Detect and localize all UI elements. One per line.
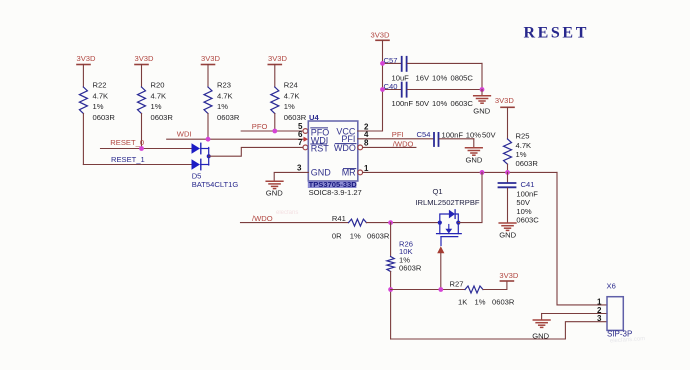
svg-text:3V3D: 3V3D (499, 271, 519, 280)
capacitor C40 (383, 82, 483, 108)
node gate junction (438, 287, 443, 292)
resistor R41 (332, 214, 390, 240)
U4 pin names right (334, 126, 356, 177)
wire R25 down (507, 164, 509, 172)
ground G4 (499, 223, 516, 239)
net label PFO + wire (241, 122, 303, 131)
wire gate down (440, 253, 442, 289)
svg-text:4.7K: 4.7K (217, 91, 233, 100)
node RESET_0 junction (139, 146, 144, 151)
svg-text:0603R: 0603R (399, 263, 422, 272)
resistor R27 (450, 280, 515, 307)
svg-text:C41: C41 (521, 180, 535, 189)
node cathode junction (207, 154, 211, 158)
wire caps right leg (481, 63, 483, 89)
svg-text:3V3D: 3V3D (77, 54, 97, 63)
svg-text:3: 3 (597, 314, 602, 323)
U4 highlighted value TPS3705-33D (308, 180, 357, 189)
wire pin8 stub + net label /WDO (363, 139, 416, 148)
svg-text:1%: 1% (284, 102, 295, 111)
svg-text:0603R: 0603R (151, 113, 174, 122)
svg-text:0603R: 0603R (93, 113, 116, 122)
svg-text:1: 1 (364, 164, 369, 173)
svg-text:0603R: 0603R (284, 113, 307, 122)
resistor R26 (387, 223, 422, 273)
diode D5b (192, 159, 209, 169)
svg-text:50V: 50V (516, 198, 530, 207)
svg-text:PFI: PFI (392, 130, 404, 139)
svg-text:GND: GND (473, 107, 490, 116)
wire R22 to RESET_1 (82, 114, 84, 165)
svg-text:RESET_0: RESET_0 (110, 138, 144, 147)
resistor R25 (504, 131, 539, 168)
svg-text:3V3D: 3V3D (268, 54, 288, 63)
svg-text:1%: 1% (93, 102, 104, 111)
label D5 (192, 172, 239, 189)
svg-text:R23: R23 (217, 81, 231, 90)
svg-text:C54: C54 (417, 130, 431, 139)
svg-text:/WDO: /WDO (393, 139, 414, 148)
power 3V3D P5 (371, 30, 391, 40)
wire RST route (209, 147, 303, 156)
ground G3 (466, 139, 483, 165)
svg-text:elecfans: elecfans (276, 210, 298, 216)
svg-text:1%: 1% (217, 102, 228, 111)
svg-text:1%: 1% (516, 150, 527, 159)
svg-text:BAT54CLT1G: BAT54CLT1G (192, 180, 239, 189)
wire cathode join (208, 148, 210, 166)
wire Q1 drain to MR rail (458, 172, 482, 222)
svg-text:R41: R41 (332, 214, 346, 223)
diode D5a (192, 143, 209, 153)
svg-text:R25: R25 (516, 131, 530, 140)
transistor Q1 (415, 187, 480, 246)
power 3V3D P3 (201, 54, 221, 87)
svg-text:1%: 1% (350, 231, 361, 240)
svg-text:4.7K: 4.7K (516, 141, 532, 150)
U4 pin names left (311, 127, 332, 177)
resistor R20 (138, 81, 174, 122)
pin7 bubble (303, 145, 308, 150)
svg-text:R20: R20 (151, 81, 165, 90)
op-amp U4 box (308, 113, 358, 181)
power 3V3D P2 (135, 54, 155, 87)
svg-text:U4: U4 (309, 113, 319, 122)
wire gate row (391, 289, 465, 291)
ground G2 (473, 90, 490, 116)
svg-text:16V: 16V (416, 73, 430, 82)
wire R41 to Q1 (366, 222, 439, 224)
svg-text:4.7K: 4.7K (93, 91, 109, 100)
svg-text:R24: R24 (284, 81, 298, 90)
svg-text:0603R: 0603R (492, 297, 515, 306)
resistor R23 (204, 81, 240, 122)
svg-text:3: 3 (297, 164, 302, 173)
svg-text:100nF: 100nF (392, 99, 414, 108)
svg-text:RESET: RESET (524, 25, 589, 42)
node R41/R26 junction (388, 220, 393, 225)
svg-text:RESET_1: RESET_1 (111, 155, 145, 164)
net label /WDO bottom + wire (241, 214, 349, 223)
power 3V3D P1 (77, 54, 97, 87)
svg-text:3V3D: 3V3D (201, 54, 221, 63)
svg-text:IRLML2502TRPBF: IRLML2502TRPBF (415, 198, 480, 207)
svg-text:0R: 0R (332, 231, 342, 240)
wire R27 to power (483, 281, 507, 290)
wire R20 to RESET_0 (141, 114, 143, 149)
svg-text:X6: X6 (607, 282, 616, 291)
svg-text:3V3D: 3V3D (135, 54, 155, 63)
svg-text:PFO: PFO (252, 122, 268, 131)
svg-text:0603C: 0603C (451, 99, 474, 108)
node MR junction R25 (505, 170, 510, 175)
power 3V3D P6 (495, 96, 515, 139)
svg-text:0603R: 0603R (516, 159, 539, 168)
svg-text:100nF: 100nF (442, 131, 464, 140)
svg-text:WDI: WDI (177, 130, 192, 139)
resistor R24 (271, 81, 307, 122)
ground G5 (532, 314, 550, 341)
wire X6 pin2 (542, 313, 607, 315)
svg-text:3V3D: 3V3D (371, 30, 391, 39)
node C40 junction (380, 87, 385, 92)
node C57 junction (380, 61, 385, 66)
svg-text:4.7K: 4.7K (284, 91, 300, 100)
U4 pin numbers (297, 122, 369, 173)
svg-text:0603R: 0603R (217, 113, 240, 122)
ground G1 (266, 181, 283, 197)
wire MR rail (363, 171, 557, 173)
node MR junction Q1 (480, 170, 485, 175)
capacitor C41 (499, 172, 540, 224)
pin8 bubble (358, 145, 363, 150)
resistor R22 (79, 81, 115, 122)
connector X6 (597, 282, 632, 339)
svg-text:3V3D: 3V3D (495, 96, 515, 105)
svg-text:7: 7 (298, 138, 303, 147)
svg-text:10%: 10% (432, 99, 447, 108)
svg-text:GND: GND (311, 168, 332, 178)
svg-text:SOIC8-3.9-1.27: SOIC8-3.9-1.27 (309, 188, 362, 197)
svg-text:50V: 50V (482, 131, 496, 140)
wire pin4 PFI (358, 138, 433, 140)
pin1 bubble (358, 170, 363, 175)
wire pin3 GND stub (274, 172, 308, 181)
svg-text:8: 8 (364, 138, 369, 147)
power 3V3D P4 (268, 54, 288, 87)
svg-text:4.7K: 4.7K (151, 91, 167, 100)
svg-text:/WDO: /WDO (252, 214, 273, 223)
pin5 bubble (303, 129, 308, 134)
wire R24 to PFO (274, 114, 276, 132)
wire R26 down (390, 272, 392, 340)
node R26 bottom junction (388, 287, 393, 292)
wire X6 pin3 route (391, 322, 607, 339)
svg-text:GND: GND (466, 155, 483, 164)
wire R23 to WDI (207, 114, 209, 140)
node WDI junction (206, 137, 211, 142)
node PFO junction (272, 129, 277, 134)
power 3V3D P7 (499, 271, 519, 281)
wire MR to X6 pin1 (557, 172, 607, 305)
svg-text:50V: 50V (416, 99, 430, 108)
svg-text:GND: GND (499, 230, 516, 239)
svg-text:1K: 1K (458, 297, 467, 306)
net label WDI + wire (167, 130, 304, 140)
svg-text:WDO: WDO (334, 143, 356, 153)
svg-text:RST: RST (311, 143, 330, 153)
svg-text:1%: 1% (475, 297, 486, 306)
capacitor C54 (417, 130, 497, 146)
svg-text:0603R: 0603R (367, 231, 390, 240)
svg-text:0603C: 0603C (516, 215, 539, 224)
pin6 input arrow (304, 137, 309, 142)
svg-text:R22: R22 (93, 81, 107, 90)
net label RESET_1 + wire (83, 155, 191, 165)
svg-text:1%: 1% (151, 102, 162, 111)
svg-text:R27: R27 (450, 280, 464, 289)
svg-text:10%: 10% (432, 73, 447, 82)
port arrow gate (437, 246, 444, 253)
wire VCC column (358, 40, 383, 131)
capacitor C57 (383, 56, 483, 82)
svg-text:GND: GND (266, 189, 283, 198)
svg-text:Q1: Q1 (433, 187, 443, 196)
net label RESET_0 + wire (101, 138, 192, 148)
svg-text:0805C: 0805C (451, 73, 474, 82)
